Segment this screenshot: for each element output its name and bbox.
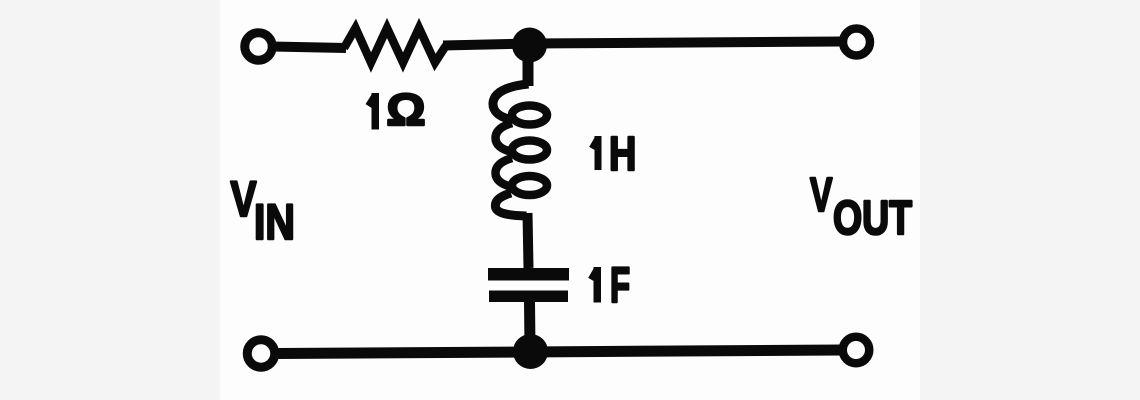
wire top middle to right bbox=[443, 42, 841, 46]
label digit 1 of 1H (flag) bbox=[592, 139, 598, 149]
node junction top bbox=[512, 28, 547, 63]
inductor L1 top hook bbox=[493, 84, 529, 119]
inductor L1 connector arc 1 bbox=[496, 123, 513, 152]
inductor L1 connector arc 2 bbox=[496, 158, 513, 187]
label digit 1 of 1F (flag) bbox=[591, 270, 597, 280]
label V_OUT subscript OUT bbox=[835, 201, 912, 235]
inductor L1 loop 3 bbox=[512, 176, 547, 195]
capacitor C1 bottom plate bbox=[489, 291, 568, 303]
label V_IN bbox=[231, 182, 257, 216]
inductor L1 stub from node bbox=[523, 44, 534, 86]
label Ω (resistor value) bbox=[388, 94, 423, 125]
scan background panel bbox=[220, 0, 920, 400]
terminal bottom-left bbox=[247, 340, 275, 368]
inductor L1 bottom hook bbox=[495, 193, 526, 216]
label digit 1 of 1H (stem) bbox=[595, 136, 602, 170]
label F (capacitor value) bbox=[612, 268, 629, 302]
wire bottom bbox=[278, 350, 841, 354]
label V_IN subscript IN bbox=[257, 205, 293, 239]
wire coil to capacitor bbox=[528, 213, 529, 268]
inductor L1 loop 2 bbox=[512, 141, 547, 160]
label digit 1 of 1F (stem) bbox=[594, 267, 602, 303]
label V_OUT bbox=[810, 178, 832, 211]
node junction bottom bbox=[513, 334, 548, 369]
resistor R1 zigzag bbox=[344, 28, 446, 63]
terminal bottom-right bbox=[843, 337, 870, 364]
inductor L1 loop 1 bbox=[512, 106, 547, 125]
label H (inductor value) bbox=[612, 137, 634, 170]
label digit 1 of 1Ω (stem) bbox=[372, 93, 380, 130]
capacitor C1 top plate bbox=[488, 268, 569, 281]
terminal top-right bbox=[843, 29, 870, 56]
label digit 1 of 1Ω (flag) bbox=[369, 97, 375, 107]
terminal top-left bbox=[245, 33, 273, 61]
capacitor C1 stub below bbox=[524, 302, 536, 348]
wire top-left segment bbox=[272, 47, 346, 49]
